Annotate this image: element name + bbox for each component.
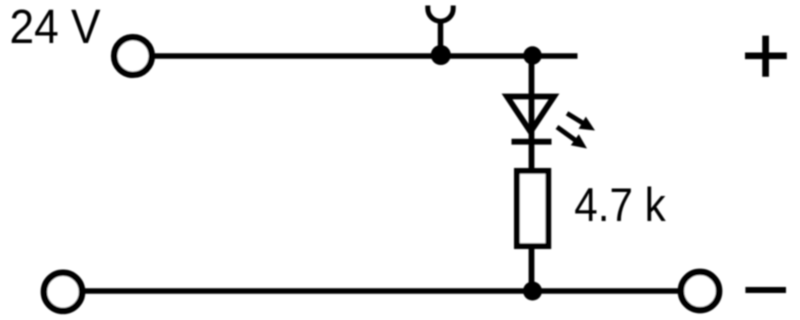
terminal X1 (24V supply, top left)	[114, 37, 152, 75]
resistor R1 body	[517, 171, 548, 246]
node C (junction dot on bottom rail)	[523, 282, 542, 301]
node B (junction dot, top of LED branch)	[523, 46, 541, 64]
plug contact symbol (socket fork)	[428, 6, 453, 22]
svg-text:24 V: 24 V	[10, 1, 101, 54]
plus polarity symbol	[745, 36, 787, 77]
svg-text:4.7 k: 4.7 k	[574, 178, 666, 231]
LED D1 triangle (anode)	[507, 97, 554, 132]
node A (junction dot on top rail)	[431, 45, 451, 65]
terminal X2 (bottom left)	[44, 273, 82, 311]
wire stem from fork to node A	[438, 20, 444, 52]
LED light arrow 2 (lower)	[557, 127, 587, 149]
LED light arrow 1 (upper)	[567, 113, 595, 130]
wire LED branch vertical	[529, 55, 535, 291]
wire top rail	[152, 53, 578, 59]
LED D1 cathode bar	[512, 139, 552, 145]
minus polarity symbol	[745, 287, 786, 293]
wire bottom rail	[82, 288, 680, 294]
terminal X3 (bottom right)	[681, 272, 719, 310]
